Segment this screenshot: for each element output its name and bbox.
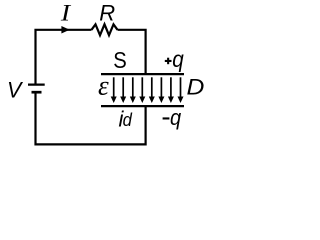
field arrow 1 bbox=[113, 77, 115, 97]
battery negative terminal (short line) bbox=[32, 91, 42, 94]
field arrow 2 bbox=[122, 77, 124, 97]
field arrow 7 bbox=[170, 77, 172, 97]
capacitor bottom plate bbox=[101, 105, 184, 107]
svg-text:q: q bbox=[170, 106, 181, 130]
field arrow 8 bbox=[180, 77, 182, 97]
field arrow 4 bbox=[141, 77, 143, 97]
svg-text:q: q bbox=[172, 46, 184, 73]
svg-text:d: d bbox=[123, 109, 133, 130]
field arrow 6 bbox=[160, 77, 162, 97]
battery positive terminal (long line) bbox=[28, 83, 45, 85]
label +q (top plate charge) bbox=[165, 60, 172, 62]
svg-text:ε: ε bbox=[98, 71, 109, 101]
svg-text:I: I bbox=[60, 1, 72, 26]
electric field arrows between plates (8 downward arrows) bbox=[111, 77, 184, 103]
resistor R zigzag bbox=[92, 24, 118, 35]
label -q (bottom plate charge) bbox=[163, 117, 170, 119]
capacitor top plate bbox=[101, 73, 184, 75]
wire from bottom plate down to bottom-right corner and across bottom bbox=[36, 106, 146, 144]
current direction arrowhead on top wire bbox=[61, 26, 69, 34]
svg-text:V: V bbox=[7, 77, 24, 103]
svg-text:R: R bbox=[99, 0, 115, 25]
wire bottom-left up to battery negative terminal bbox=[34, 92, 36, 145]
svg-text:S: S bbox=[113, 47, 127, 74]
field arrow 3 bbox=[132, 77, 134, 97]
field arrow 5 bbox=[151, 77, 153, 97]
wire top-left: battery positive terminal up and across to resistor bbox=[36, 30, 92, 84]
wire from resistor to top-right corner, down to top capacitor plate bbox=[118, 30, 146, 73]
svg-text:D: D bbox=[187, 75, 205, 100]
